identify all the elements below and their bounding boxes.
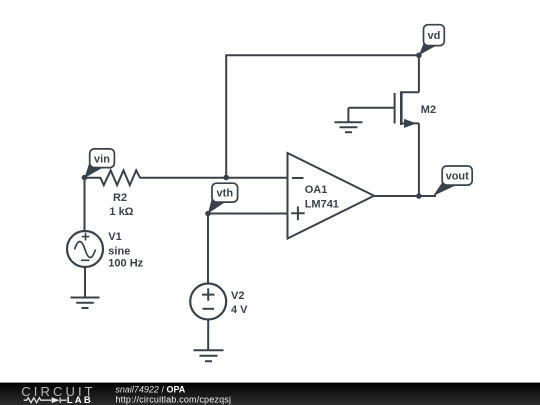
svg-text:vout: vout: [446, 171, 470, 183]
svg-text:vin: vin: [94, 153, 110, 165]
svg-text:snail74922 / OPA: snail74922 / OPA: [115, 385, 185, 395]
svg-text:100 Hz: 100 Hz: [108, 258, 143, 270]
svg-text:4 V: 4 V: [231, 304, 248, 316]
svg-text:LAB: LAB: [67, 395, 93, 405]
svg-text:vth: vth: [217, 188, 234, 200]
svg-text:M2: M2: [421, 104, 436, 116]
svg-text:OA1: OA1: [305, 184, 328, 196]
svg-text:sine: sine: [108, 245, 130, 257]
svg-text:http://circuitlab.com/cpezqsj: http://circuitlab.com/cpezqsj: [115, 394, 231, 404]
svg-text:R2: R2: [113, 192, 127, 204]
svg-text:vd: vd: [427, 30, 440, 42]
svg-text:LM741: LM741: [305, 198, 339, 210]
svg-text:1 kΩ: 1 kΩ: [109, 206, 133, 218]
svg-text:V1: V1: [108, 231, 121, 243]
svg-text:V2: V2: [231, 290, 244, 302]
